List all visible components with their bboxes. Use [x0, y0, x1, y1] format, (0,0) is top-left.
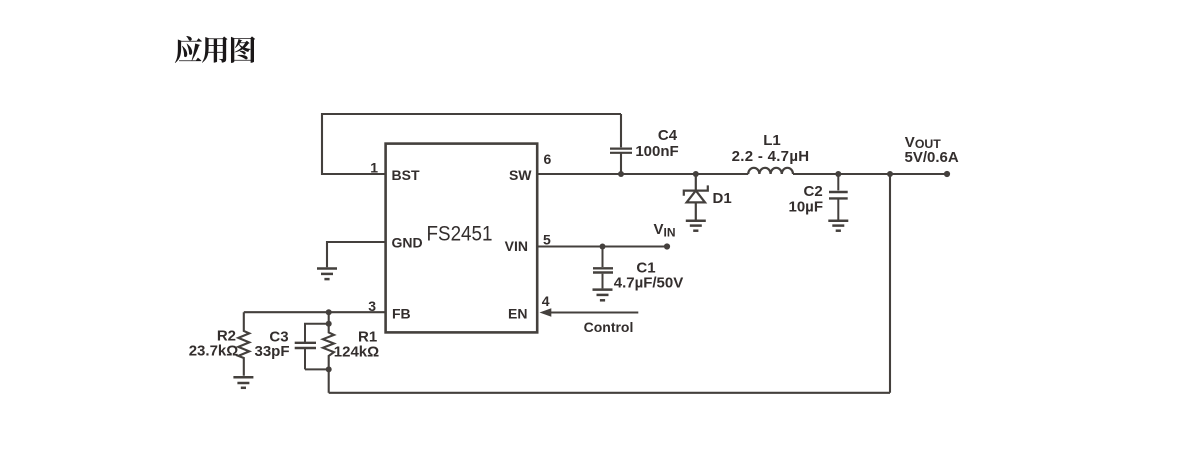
resistor R1	[323, 312, 334, 369]
wire GND pin	[327, 242, 386, 267]
svg-text:1: 1	[370, 160, 378, 176]
node FB junction	[326, 309, 332, 315]
node VOUT terminal	[944, 171, 950, 177]
svg-text:23.7kΩ: 23.7kΩ	[189, 343, 239, 360]
svg-text:D1: D1	[713, 190, 732, 207]
capacitor C4 stem bottom	[620, 153, 622, 174]
wire feedback vertical	[889, 174, 891, 393]
wire VIN pin	[537, 245, 667, 247]
wire L1 to VOUT	[793, 173, 947, 175]
svg-text:6: 6	[544, 151, 552, 167]
inductor L1	[748, 168, 793, 174]
svg-text:4: 4	[542, 293, 550, 309]
node C2 junction	[835, 171, 841, 177]
svg-text:4.7µF/50V: 4.7µF/50V	[614, 275, 684, 292]
ground (D1)	[686, 221, 706, 231]
IC U1 FS2451 body	[386, 144, 538, 333]
node D1 junction	[693, 171, 699, 177]
svg-text:100nF: 100nF	[635, 143, 678, 160]
svg-text:C4: C4	[658, 127, 678, 144]
wire R1 bottom	[328, 369, 330, 392]
capacitor C4 stem top	[620, 114, 622, 147]
EN arrowhead	[540, 308, 552, 317]
diode D1 (schottky)	[684, 174, 708, 220]
svg-text:124kΩ: 124kΩ	[334, 344, 379, 361]
capacitor C1	[593, 247, 613, 289]
svg-text:33pF: 33pF	[254, 343, 289, 360]
ground (C2)	[828, 221, 848, 231]
svg-text:Control: Control	[584, 319, 634, 335]
svg-text:10µF: 10µF	[789, 198, 824, 215]
svg-text:FS2451: FS2451	[427, 223, 493, 246]
wire SW node	[537, 173, 748, 175]
ground (GND pin)	[317, 269, 337, 280]
svg-text:VIN: VIN	[505, 238, 528, 254]
capacitor C3	[295, 324, 329, 370]
wire BST to bootstrap loop	[322, 114, 621, 174]
svg-text:3: 3	[368, 298, 376, 314]
svg-text:L1: L1	[763, 132, 781, 149]
resistor R2	[238, 312, 249, 376]
capacitor C4 plates	[610, 149, 632, 153]
svg-text:5V/0.6A: 5V/0.6A	[905, 149, 959, 166]
title 应用图	[175, 36, 255, 63]
svg-text:VIN: VIN	[654, 221, 676, 240]
node C3 bottom junction	[326, 366, 332, 372]
svg-text:EN: EN	[508, 306, 527, 322]
svg-text:2.2 - 4.7µH: 2.2 - 4.7µH	[732, 148, 810, 165]
wire feedback bottom	[329, 392, 890, 394]
capacitor C2	[829, 174, 848, 220]
node SW/C4 junction	[618, 171, 624, 177]
wire EN control	[551, 311, 639, 313]
ground (R2)	[233, 377, 253, 388]
wire FB pin	[244, 311, 386, 313]
svg-text:BST: BST	[392, 167, 420, 183]
svg-text:5: 5	[543, 232, 551, 248]
svg-text:SW: SW	[509, 167, 532, 183]
node C1 junction	[600, 244, 606, 250]
svg-text:GND: GND	[392, 234, 423, 250]
node VIN terminal	[664, 243, 670, 249]
svg-text:FB: FB	[392, 306, 411, 322]
node C3 top junction	[326, 321, 332, 327]
node feedback junction	[887, 171, 893, 177]
ground (C1)	[593, 290, 613, 301]
